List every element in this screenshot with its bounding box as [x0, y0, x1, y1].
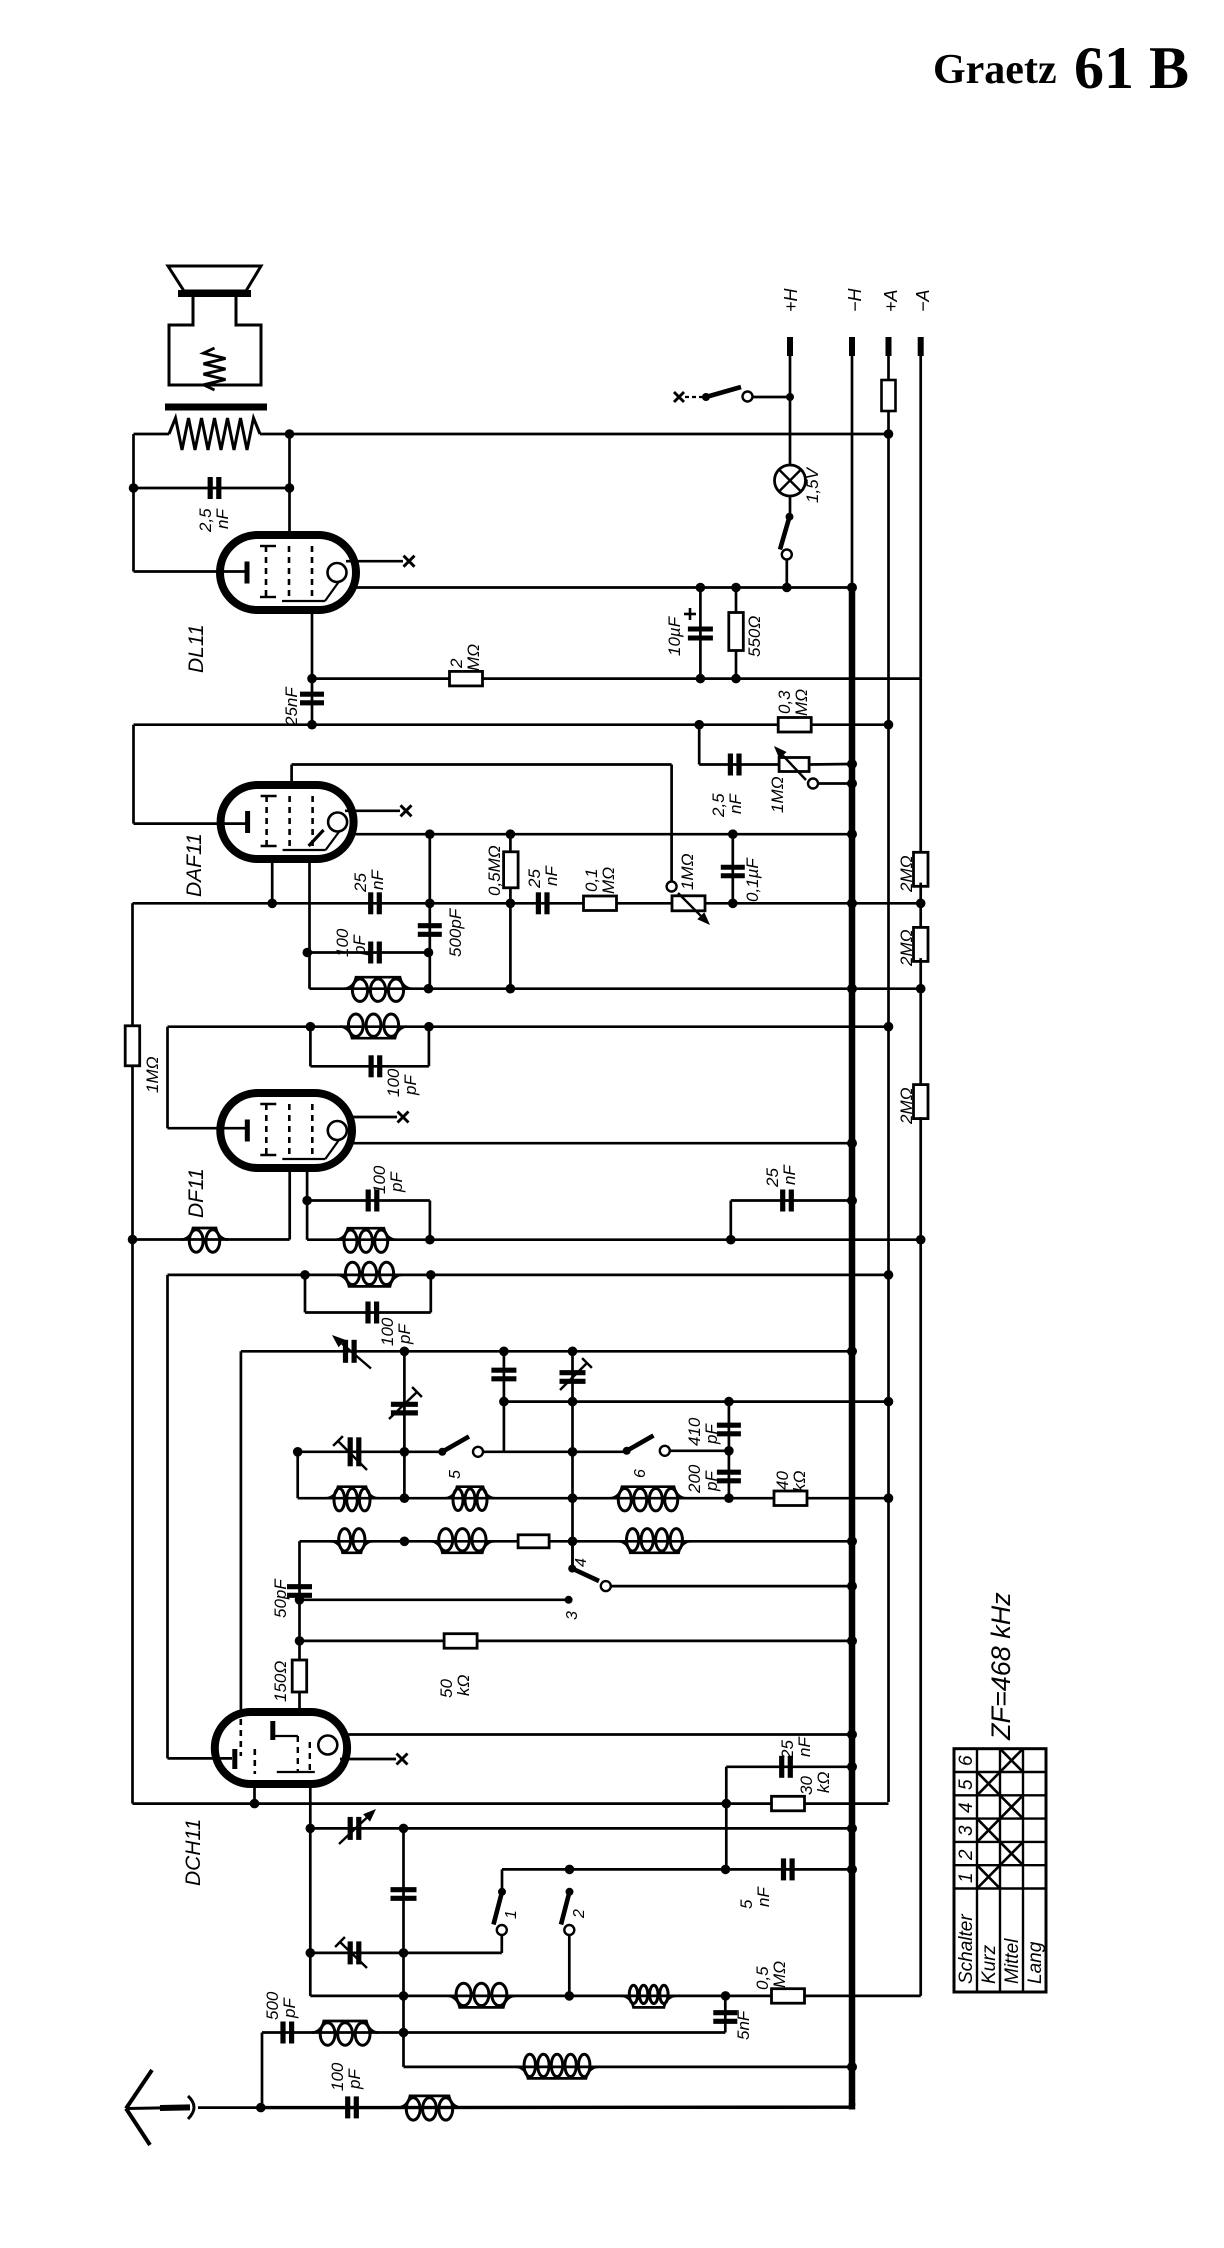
svg-text:MΩ: MΩ: [599, 867, 618, 894]
coil row1 B: [445, 1487, 495, 1499]
node chain junction3: [916, 1235, 926, 1245]
wire chain bottom corner: [919, 1239, 922, 1996]
svg-text:2MΩ: 2MΩ: [897, 855, 916, 893]
resistor 2 Mohm chain3: [914, 1085, 929, 1119]
node sec top right: [424, 948, 434, 958]
node 5nF col: [721, 1991, 731, 2001]
wire column C: [571, 1351, 574, 1568]
node pri right: [424, 1022, 434, 1032]
wire DL11 cathode line to -H: [356, 586, 852, 589]
capacitor 100pF IF2 pri: [369, 1055, 374, 1077]
svg-text:1,5V: 1,5V: [803, 466, 822, 503]
wire DCH11 bottom pin1: [253, 1784, 256, 1804]
wire DCH11 triode line to -H: [347, 1733, 852, 1736]
svg-text:nF: nF: [726, 793, 745, 814]
wire tone branch down: [698, 725, 701, 765]
tube DCH11: [215, 1712, 347, 1784]
svg-text:150Ω: 150Ω: [271, 1661, 290, 1702]
node 2.5nF right: [285, 483, 295, 493]
capacitor 100pF IF2 sec: [368, 942, 373, 964]
wire DAF11 grid top exit: [290, 765, 293, 788]
node IF1 sec right: [425, 1235, 435, 1245]
node switch3 stub: [565, 1596, 573, 1604]
capacitor 100pF IF1 pri: [365, 1302, 370, 1324]
wire DAF11 filament to x: [345, 809, 400, 812]
terminal +A: [886, 337, 892, 356]
node switch4 on -H: [847, 1581, 857, 1591]
node row2 C / switch4: [568, 1537, 578, 1547]
svg-text:DCH11: DCH11: [182, 1819, 205, 1886]
switch 5: [438, 1448, 446, 1456]
wire grid leak line: [133, 1802, 889, 1805]
node lamp switch bottom: [782, 583, 792, 593]
svg-text:pF: pF: [395, 1323, 414, 1345]
svg-text:61 B: 61 B: [1074, 35, 1189, 101]
svg-text:pF: pF: [350, 934, 369, 956]
node -H / DL11 cathode line: [847, 583, 857, 593]
coil row2 D: [331, 1541, 373, 1553]
wire 100pF pri right: [429, 1275, 432, 1313]
svg-text:Schalter: Schalter: [956, 1914, 977, 1984]
node osc A on -H: [847, 1823, 857, 1833]
wire DL11 plate lead: [134, 570, 249, 573]
svg-text:1: 1: [956, 1872, 977, 1883]
node DCH11 triode on -H: [847, 1730, 857, 1740]
capacitor 5nF osc: [781, 1858, 786, 1880]
wire padder column: [503, 1351, 506, 1452]
capacitor 500pF: [418, 923, 442, 928]
node padder junction: [499, 1397, 509, 1407]
node DCH11 pin1 junction: [250, 1799, 260, 1809]
svg-text:6: 6: [632, 1469, 649, 1478]
wire IF1 secondary line: [307, 1238, 921, 1241]
svg-text:Mittel: Mittel: [1002, 1938, 1023, 1984]
node pri left: [306, 1022, 316, 1032]
node volume line on -H: [847, 898, 857, 908]
wire osc tuning line A: [310, 1827, 852, 1830]
wire DF11 bottom pin1: [288, 1168, 291, 1240]
wire IF1 primary line: [168, 1274, 889, 1277]
svg-text:ZF=468 kHz: ZF=468 kHz: [986, 1592, 1016, 1741]
wire DAF11 bottom pin1: [271, 859, 274, 903]
wire osc line B switches: [502, 1868, 852, 1871]
svg-text:nF: nF: [213, 508, 232, 529]
svg-text:MΩ: MΩ: [770, 1961, 789, 1988]
node diode load branch: [425, 829, 435, 839]
wire switch3 line: [300, 1598, 569, 1601]
node y1452 410pF col: [724, 1446, 734, 1456]
node 25nF branch: [726, 1235, 736, 1245]
capacitor 10uF electrolytic: [699, 588, 702, 679]
node tuning line A: [400, 1347, 410, 1357]
wire osc line y1401: [504, 1400, 889, 1403]
switch 1: [501, 1869, 504, 1891]
svg-text:−H: −H: [845, 287, 865, 312]
capacitor 200pF: [717, 1470, 741, 1475]
switch 6: [623, 1447, 631, 1455]
node antenna junction: [256, 2103, 266, 2113]
resistor 0.3 Mohm: [778, 718, 811, 733]
node coil right: [424, 984, 434, 994]
tube DF11: [220, 1093, 352, 1168]
power switch on +H: [674, 392, 684, 402]
svg-text:5: 5: [447, 1470, 464, 1479]
node row1 on +A: [884, 1493, 894, 1503]
svg-text:MΩ: MΩ: [464, 644, 483, 671]
resistor 2 Mohm: [450, 671, 483, 686]
node tuning line C: [568, 1347, 578, 1357]
resistor 40 kohm: [774, 1491, 807, 1506]
coil antenna input: [398, 2096, 461, 2108]
node primary-right: [285, 429, 295, 439]
wire IF2 primary line: [168, 1025, 889, 1028]
wire DF11 screen line: [352, 1142, 852, 1145]
x mark DF11 filament: [398, 1112, 409, 1123]
wire 25nF osc branch: [725, 1767, 728, 1870]
coil antenna LW: [516, 2067, 598, 2079]
wire antenna coil line MW: [262, 2031, 725, 2034]
node 0.5M to AVC rail: [506, 984, 516, 994]
svg-text:500pF: 500pF: [446, 907, 465, 957]
antenna symbol: [126, 2107, 190, 2108]
wire 25nF branch up: [729, 1201, 732, 1240]
svg-text:1MΩ: 1MΩ: [143, 1056, 162, 1093]
rail -H bus thick: [849, 588, 856, 2107]
tube DAF11: [221, 785, 354, 859]
node osc A left: [306, 1824, 316, 1834]
svg-text:+A: +A: [881, 289, 901, 312]
wire RF tuning line: [241, 1350, 852, 1353]
wire antenna lead: [198, 2106, 261, 2109]
resistor 0.5 Mohm AVC: [509, 834, 512, 989]
speaker voice-coil resistor: [204, 348, 226, 390]
svg-text:nF: nF: [780, 1164, 799, 1185]
svg-text:kΩ: kΩ: [790, 1471, 809, 1493]
node row2 on -H: [847, 1536, 857, 1546]
svg-text:10µF: 10µF: [665, 615, 684, 656]
coil row2 E: [430, 1541, 494, 1553]
svg-text:1MΩ: 1MΩ: [768, 776, 787, 813]
svg-text:550Ω: 550Ω: [745, 616, 764, 657]
svg-text:kΩ: kΩ: [814, 1772, 833, 1794]
wire 25nF line: [731, 1199, 852, 1202]
node osc B on -H: [847, 1864, 857, 1874]
capacitor 2.5nF anode bypass: [208, 477, 213, 499]
coil IF2 secondary: [344, 977, 412, 989]
wire DF11 filament to x: [346, 1116, 397, 1119]
node IF1 pri on +A: [884, 1270, 894, 1280]
wire DAF11 diode line: [354, 833, 852, 836]
x mark DL11 filament: [404, 556, 415, 567]
variable capacitor osc gang: [348, 1817, 353, 1840]
node tuning line on -H: [847, 1346, 857, 1356]
svg-text:pF: pF: [345, 2068, 364, 2090]
node 50pF line junction: [295, 1595, 305, 1605]
resistor 0.1 Mohm grid: [584, 896, 617, 911]
trimmer capacitor 2: [391, 1402, 418, 1407]
capacitor 25nF IF bypass: [780, 1190, 785, 1212]
svg-text:50pF: 50pF: [271, 1578, 290, 1618]
rail -A: [919, 356, 922, 677]
svg-text:25nF: 25nF: [282, 686, 301, 727]
output transformer core: [165, 404, 267, 411]
svg-text:1MΩ: 1MΩ: [678, 853, 697, 890]
svg-text:kΩ: kΩ: [454, 1675, 473, 1697]
node IF2 pri on +A: [884, 1022, 894, 1032]
wire DL11 plate loop left: [132, 434, 135, 572]
svg-text:3: 3: [956, 1825, 977, 1836]
wire DAF11 grid line: [292, 763, 672, 766]
node DAF11 pin1 junction: [267, 899, 277, 909]
node tuning line B: [499, 1347, 509, 1357]
wire +H down to lamp: [789, 397, 792, 465]
svg-text:4: 4: [956, 1802, 977, 1813]
svg-text:nF: nF: [368, 869, 387, 890]
node primary-left / 2.5nF: [129, 483, 139, 493]
node IF1 pri left: [300, 1270, 310, 1280]
node y1452 A: [400, 1447, 410, 1457]
coil row1 C: [610, 1487, 686, 1499]
wire DF11 plate lead: [168, 1127, 249, 1130]
node osc coil col: [399, 1991, 409, 2001]
node tone branch: [694, 720, 704, 730]
wire screen feed down to DL11: [288, 434, 291, 537]
wire switch4 to -H: [611, 1585, 852, 1588]
node row1 C: [568, 1493, 578, 1503]
svg-text:pF: pF: [702, 1470, 721, 1492]
svg-text:5nF: 5nF: [734, 2009, 753, 2040]
node y1452 left: [293, 1447, 303, 1457]
wire DCH11 plate lead: [168, 1757, 233, 1760]
wire chain: [919, 958, 922, 1086]
wire DL11 filament to x: [346, 560, 403, 563]
wire oscillator coil row: [310, 1995, 920, 1998]
coil IF2 primary: [340, 1027, 407, 1039]
svg-text:pF: pF: [280, 1997, 299, 2019]
svg-text:0,1µF: 0,1µF: [743, 857, 762, 902]
wire DAF11 plate lead: [134, 822, 249, 825]
wire wiper riser: [670, 765, 673, 882]
node tone pot on -H: [847, 759, 857, 769]
capacitor 25nF osc grid: [779, 1756, 784, 1778]
switch 4: [571, 1541, 574, 1568]
node y1401 410pF: [724, 1397, 734, 1407]
wire tone line: [699, 763, 779, 766]
svg-text:5: 5: [956, 1779, 977, 1790]
capacitor 100pF antenna: [345, 2096, 350, 2118]
wire DF11 plate riser: [166, 1027, 169, 1129]
wire DF11 bottom pin2: [306, 1168, 309, 1240]
resistor 1 Mohm left rail: [125, 1026, 140, 1066]
node osc B col junction: [399, 1948, 409, 1958]
capacitor 100pF IF1 sec: [366, 1190, 371, 1212]
node osc 25nF on -H: [847, 1762, 857, 1772]
wire antenna coil line LW: [404, 2066, 853, 2069]
svg-text:pF: pF: [401, 1074, 420, 1096]
capacitor 500pF antenna: [280, 2022, 285, 2044]
svg-text:3: 3: [564, 1611, 581, 1620]
wire 50k line: [300, 1640, 853, 1643]
node osc B left: [306, 1948, 316, 1958]
resistor 550 ohm: [735, 588, 738, 679]
wire pri right down: [428, 1027, 431, 1067]
resistor 0.5 Mohm osc: [772, 1989, 805, 2004]
tube DL11: [220, 535, 356, 610]
svg-text:pF: pF: [387, 1171, 406, 1193]
node row2 A: [400, 1537, 410, 1547]
wire DCH11 filament to x: [340, 1758, 396, 1761]
wire DL11 bottom exit: [311, 610, 314, 725]
trimmer capacitor 4: [560, 1370, 586, 1375]
node 25nF osc branch: [722, 1799, 732, 1809]
node 50k line junction: [295, 1636, 305, 1646]
node switch2 top: [565, 1865, 575, 1875]
node IF1 pri right: [426, 1270, 436, 1280]
capacitor 5nF antenna: [724, 1996, 727, 2033]
wire diode load vertical: [428, 834, 431, 989]
capacitor 410pF: [728, 1402, 731, 1499]
svg-text:nF: nF: [754, 1886, 773, 1907]
wire 100pF IF2 pri line: [310, 1065, 429, 1068]
terminal +H: [787, 337, 793, 356]
wire osc varcap B line: [310, 1952, 502, 1955]
coil grid choke: [181, 1228, 228, 1240]
node osc B col: [721, 1865, 731, 1875]
node 0.5M bottom: [506, 899, 516, 909]
svg-text:0,5MΩ: 0,5MΩ: [485, 845, 504, 896]
switch table: [954, 1749, 1046, 1992]
svg-text:−A: −A: [913, 289, 933, 312]
wire 0.3M line: [134, 723, 889, 726]
capacitor 0.1uF: [731, 834, 734, 903]
node y1401 C: [568, 1397, 578, 1407]
node +A / B+ line: [884, 429, 894, 439]
node LW on -H: [847, 2062, 857, 2072]
node MW col: [399, 2028, 409, 2038]
wire -A corner: [919, 677, 922, 856]
node 550 bottom: [731, 674, 741, 684]
rail +H: [789, 356, 792, 397]
loudspeaker: [168, 266, 261, 291]
node switch2 bottom: [565, 1991, 575, 2001]
resistor row2 series: [518, 1535, 549, 1548]
svg-text:DF11: DF11: [185, 1168, 208, 1218]
node row1 410pF col: [724, 1493, 734, 1503]
node osc A col: [399, 1824, 409, 1834]
svg-text:6: 6: [956, 1755, 977, 1766]
resistor 150 ohm: [292, 1660, 307, 1692]
wire 100pF IF1 line: [307, 1199, 430, 1202]
svg-text:nF: nF: [795, 1736, 814, 1757]
node 550 top: [731, 583, 741, 593]
switch 2: [566, 1888, 574, 1896]
resistor 2 Mohm chain2: [919, 883, 922, 931]
x mark DAF11 filament: [401, 805, 412, 816]
wire RF grid column: [240, 1351, 243, 1712]
node sec top left: [303, 948, 313, 958]
trimmer capacitor 3: [348, 1437, 353, 1466]
wire switch line y1452: [298, 1450, 443, 1453]
rail +A: [887, 411, 890, 1802]
svg-text:1: 1: [503, 1910, 520, 1919]
wire col y1452 down: [296, 1452, 299, 1498]
wire osc column: [402, 1828, 405, 2066]
coil antenna MW: [312, 2021, 379, 2033]
node diode line on -H: [847, 829, 857, 839]
wire DCH11 plate riser: [166, 1275, 169, 1759]
coil IF1 secondary: [336, 1228, 396, 1240]
svg-text:2: 2: [956, 1849, 977, 1861]
wire 100pF line: [307, 951, 428, 954]
svg-text:4: 4: [573, 1558, 590, 1567]
wire B+ line from primary to +A: [290, 433, 889, 436]
terminal -A: [918, 337, 924, 356]
node AVC on -H: [847, 984, 857, 994]
coil oscillator 2: [622, 1996, 676, 2008]
node 50k on -H: [847, 1636, 857, 1646]
node 10uF bottom: [696, 674, 706, 684]
resistor 2 Mohm chain1: [914, 852, 929, 886]
potentiometer 1 Mohm tone: [779, 758, 809, 772]
wire trimmer column: [403, 1351, 406, 1498]
x mark DCH11 filament: [397, 1754, 408, 1765]
fuse on +A: [887, 356, 890, 380]
coil oscillator 1: [448, 1996, 516, 2008]
node chain 2M junction1: [916, 899, 926, 909]
node grid return on left rail: [128, 1235, 138, 1245]
node 0.5M top: [506, 829, 516, 839]
svg-text:DAF11: DAF11: [183, 833, 206, 897]
node DL11 bottom / -A line: [307, 674, 317, 684]
svg-text:MΩ: MΩ: [792, 689, 811, 716]
node 10uF top: [696, 583, 706, 593]
wire 2.5nF line: [134, 487, 290, 490]
node 25nF on -H: [847, 1196, 857, 1206]
coil IF1 primary: [337, 1275, 402, 1287]
svg-text:Kurz: Kurz: [979, 1944, 1000, 1984]
node y1401 on +A: [884, 1397, 894, 1407]
node 0.1uF top: [728, 829, 738, 839]
svg-text:+H: +H: [781, 287, 801, 312]
node chain 2M junction2: [916, 984, 926, 994]
node 100pF IF1 tap: [302, 1196, 312, 1206]
wire RF coil row2: [300, 1540, 853, 1543]
lamp 1.5V dial light: [775, 465, 806, 496]
wire 100pF right down: [429, 1201, 432, 1240]
capacitor 25nF AF coupling: [536, 892, 541, 914]
coil row1 A: [326, 1487, 378, 1499]
resistor 30 kohm: [772, 1796, 805, 1811]
node DF11 screen on -H: [847, 1138, 857, 1148]
svg-text:nF: nF: [542, 865, 561, 886]
coil row2 F: [618, 1541, 690, 1553]
lamp switch: [789, 496, 792, 513]
variable capacitor osc trimmer: [348, 1941, 353, 1964]
node row1 A: [400, 1493, 410, 1503]
wire IF2 secondary line: [310, 987, 921, 990]
wire 100pF IF1 pri line: [305, 1311, 431, 1314]
variable capacitor tuning gang RF: [343, 1340, 348, 1363]
svg-text:Graetz: Graetz: [933, 47, 1057, 93]
terminal -H: [849, 337, 855, 356]
node 25nF to grid line: [307, 720, 317, 730]
capacitor 2.5nF tone: [728, 754, 733, 776]
wire left rail lower segment: [131, 903, 134, 1803]
capacitor osc series: [391, 1887, 417, 1892]
wire antenna riser: [261, 2033, 264, 2108]
svg-text:pF: pF: [702, 1423, 721, 1445]
node 0.1uF bottom: [728, 899, 738, 909]
